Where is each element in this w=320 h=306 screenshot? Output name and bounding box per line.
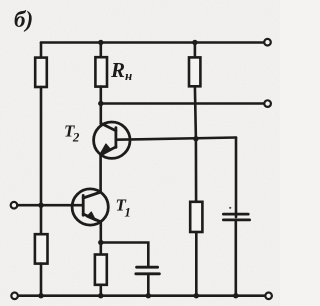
terminal input xyxy=(11,202,18,209)
wire top rail xyxy=(41,41,264,44)
wire right column lower xyxy=(195,232,198,296)
wire T1 emitter down xyxy=(100,222,103,255)
terminal bottom-left xyxy=(11,293,18,300)
T1 emitter arrow xyxy=(87,212,96,221)
node rail R3 xyxy=(98,293,103,298)
node T2 base / right divider xyxy=(193,136,198,141)
wire Rn top lead xyxy=(100,43,103,58)
node top rail / Rn xyxy=(98,40,103,45)
resistor R3 (emitter) xyxy=(95,255,107,285)
node input/divider junction xyxy=(38,203,43,208)
wire C2 bottom lead xyxy=(235,220,238,296)
node rail C1 xyxy=(146,293,151,298)
speck near C2 xyxy=(229,207,231,209)
wire output line xyxy=(101,102,264,105)
wire T2 base corner down to C2 xyxy=(235,138,238,218)
wire T2 emitter to T1 collector xyxy=(99,155,102,192)
transistor T2 xyxy=(94,122,130,158)
node output junction xyxy=(98,101,103,106)
wire bottom rail xyxy=(18,294,265,297)
capacitor C1 xyxy=(136,267,160,274)
resistor R5 (lower right divider) xyxy=(190,202,202,232)
resistor R4 (upper right divider) xyxy=(189,57,200,86)
wire right column middle xyxy=(195,86,196,202)
T2 emitter arrow xyxy=(101,144,110,153)
wire C1 bottom lead xyxy=(147,274,150,296)
wire right column top lead xyxy=(194,43,197,58)
wire T2 base line xyxy=(116,138,236,140)
wire left column middle xyxy=(40,87,43,235)
wire left column lower xyxy=(40,264,43,296)
transistor T1 xyxy=(72,189,108,225)
terminal output xyxy=(264,100,271,107)
node emitter junction xyxy=(98,240,103,245)
node rail C2 xyxy=(233,293,238,298)
wire input line to T1 base xyxy=(17,204,83,207)
wire R3 bottom lead xyxy=(100,285,103,296)
terminal bottom-right xyxy=(265,293,272,300)
resistor R1 (upper left divider) xyxy=(35,58,47,87)
svg-text:б): б) xyxy=(14,7,33,32)
node rail R5 xyxy=(194,293,199,298)
capacitor C2 xyxy=(223,214,249,220)
wire left column upper xyxy=(40,43,43,59)
node top rail / right divider xyxy=(192,40,197,45)
terminal top-right xyxy=(264,39,271,46)
resistor Rn (load) xyxy=(95,57,107,86)
wire Rn bottom lead xyxy=(100,87,103,124)
wire to capacitor C1 xyxy=(101,243,149,267)
resistor R2 (lower left divider) xyxy=(35,234,48,263)
node rail R2 xyxy=(38,293,43,298)
